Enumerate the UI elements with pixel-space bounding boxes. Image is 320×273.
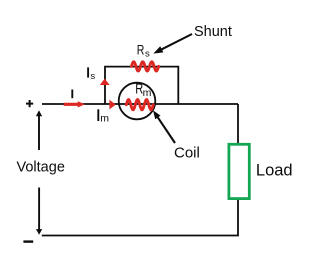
svg-text:R: R (137, 42, 145, 58)
svg-text:m: m (100, 113, 109, 125)
svg-text:Voltage: Voltage (17, 160, 65, 176)
svg-text:Coil: Coil (174, 145, 200, 162)
svg-text:Load: Load (256, 162, 293, 180)
svg-text:m: m (143, 87, 152, 99)
svg-text:Shunt: Shunt (194, 24, 232, 40)
svg-text:s: s (145, 48, 150, 59)
svg-text:s: s (90, 71, 95, 82)
